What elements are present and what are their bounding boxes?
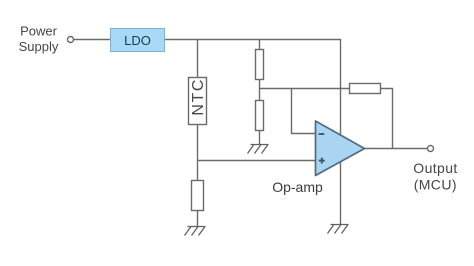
wire: lower resistor to ground xyxy=(197,211,199,227)
svg-text:LDO: LDO xyxy=(124,33,151,48)
resistor: divider upper xyxy=(256,50,264,80)
wire: rail to NTC xyxy=(197,40,199,78)
op-amp non-inverting input mark xyxy=(319,158,325,164)
op-amp U2 xyxy=(316,121,365,176)
terminal: power supply input xyxy=(68,37,74,43)
wire: LDO output rail xyxy=(165,40,341,225)
svg-text:(MCU): (MCU) xyxy=(414,177,457,193)
svg-text:Output: Output xyxy=(413,160,457,176)
wire: NTC to bottom resistor xyxy=(197,125,199,181)
svg-text:Op-amp: Op-amp xyxy=(272,179,323,195)
resistor: feedback xyxy=(350,84,381,94)
wire: divider lower to ground xyxy=(259,131,261,145)
wire: divider node to feedback xyxy=(260,89,393,149)
thermistor NTC xyxy=(189,78,207,125)
wire: power supply to LDO xyxy=(74,39,111,41)
op-amp inverting input mark xyxy=(319,133,325,135)
svg-text:Supply: Supply xyxy=(19,39,59,54)
resistor: NTC series lower xyxy=(192,181,204,211)
ground: divider xyxy=(248,145,269,154)
svg-text:NTC: NTC xyxy=(190,78,207,116)
ground: NTC branch xyxy=(185,227,206,236)
terminal: output xyxy=(428,146,434,152)
ground: op-amp xyxy=(328,225,349,234)
svg-text:Power: Power xyxy=(20,24,58,39)
LDO U1 xyxy=(111,29,165,52)
wire: divider mid segment xyxy=(259,80,261,101)
wire: node to inverting input xyxy=(292,89,316,134)
wire: NTC node to op-amp non-inverting input xyxy=(198,160,316,162)
wire: rail to divider top resistor xyxy=(259,40,261,51)
resistor: divider lower xyxy=(256,101,264,131)
wire: op-amp output xyxy=(365,148,428,150)
